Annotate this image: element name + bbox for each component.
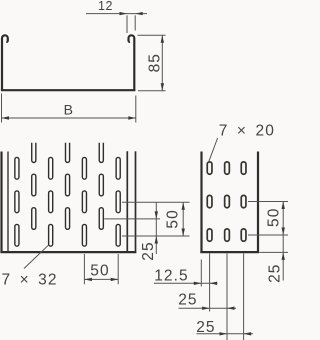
svg-text:50: 50 xyxy=(165,209,182,228)
svg-text:50: 50 xyxy=(90,263,109,280)
left panel outer left edge xyxy=(0,152,2,253)
label 7x32 leader xyxy=(24,245,48,268)
svg-text:25: 25 xyxy=(140,241,157,260)
left panel bottom edge xyxy=(0,251,136,253)
channel profile left wall xyxy=(2,35,8,90)
left panel bottom dimension 50 extension lines xyxy=(84,254,118,284)
right panel slots row 3 xyxy=(207,229,246,241)
left panel dimension 50 line xyxy=(182,202,185,236)
left panel bottom dimension 50 line xyxy=(84,278,118,281)
right panel right edge xyxy=(257,152,259,253)
left panel slots column 1 xyxy=(15,157,19,246)
dimension 25 second text xyxy=(196,319,215,336)
right panel slots row 2 xyxy=(207,195,246,207)
svg-text:7 × 20: 7 × 20 xyxy=(219,123,275,140)
dimension B text xyxy=(64,102,74,118)
left panel left bend line xyxy=(7,152,9,252)
right panel dimension 50 line xyxy=(282,202,285,281)
left panel slots column 6 (top clipped) xyxy=(99,143,103,230)
dimension 25 second line xyxy=(197,332,254,335)
left panel dimension 25 text xyxy=(140,241,157,260)
channel profile right wall xyxy=(128,35,134,90)
svg-text:12.5: 12.5 xyxy=(154,268,189,285)
right panel dimension 50 text xyxy=(265,208,282,227)
label 7x20 leader xyxy=(209,138,218,161)
left panel slots column 7 xyxy=(116,157,120,246)
left panel dimension 50 text xyxy=(165,209,182,228)
right panel bottom edge xyxy=(200,251,259,253)
svg-text:12: 12 xyxy=(98,0,113,13)
dimension 12 extension lines xyxy=(127,15,135,33)
right panel right dimension extension lines xyxy=(248,202,288,253)
left panel slots column 3 xyxy=(49,157,53,246)
svg-text:B: B xyxy=(64,102,74,118)
label 7x32 text xyxy=(2,271,58,288)
svg-text:25: 25 xyxy=(196,319,215,336)
right panel slots row 1 xyxy=(207,162,246,174)
dimension 25 first text xyxy=(178,292,197,309)
left panel right dimension extension lines xyxy=(104,202,189,236)
right panel dimension 25 text xyxy=(266,263,283,282)
svg-text:7 × 32: 7 × 32 xyxy=(2,271,58,288)
left panel slots column 5 xyxy=(82,157,86,246)
svg-text:25: 25 xyxy=(178,292,197,309)
left panel bottom dimension 50 text xyxy=(90,263,109,280)
dimension 85 extension lines xyxy=(138,35,166,90)
dimension 12.5 text xyxy=(154,268,189,285)
dimension B line xyxy=(2,116,136,119)
dimension 12.5 line xyxy=(154,282,218,285)
left panel slots column 2 (top clipped) xyxy=(32,143,36,230)
dimension 85 line xyxy=(161,35,164,90)
dimension 12 line xyxy=(86,12,147,15)
left panel dimension 25 line xyxy=(155,202,158,254)
dimension 85 text xyxy=(146,53,163,72)
dimension 25 first line xyxy=(179,307,237,310)
left panel slots column 4 (top clipped) xyxy=(65,143,69,230)
channel profile bottom xyxy=(1,89,136,91)
svg-text:50: 50 xyxy=(265,208,282,227)
left panel outer right edge xyxy=(135,151,137,251)
dimension B extension lines xyxy=(2,94,136,123)
left panel right bend line xyxy=(126,151,128,251)
right panel left edge xyxy=(200,152,202,253)
dimension 12 text xyxy=(98,0,113,13)
svg-text:85: 85 xyxy=(146,53,163,72)
label 7x20 text xyxy=(219,123,275,140)
svg-text:25: 25 xyxy=(266,263,283,282)
right panel bottom extension lines xyxy=(201,254,243,340)
